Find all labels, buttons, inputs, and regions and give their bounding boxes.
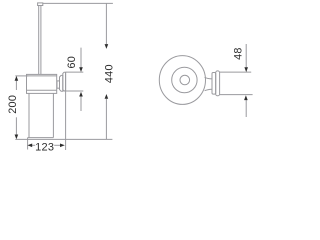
extension line knob bottom (48) (220, 94, 253, 96)
cup right wall (52, 93, 54, 137)
svg-text:200: 200 (7, 95, 19, 114)
dimension 48 lower tail (245, 100, 247, 117)
arrowhead 123 right (60, 144, 65, 148)
knob outer bar (216, 71, 220, 96)
knob neck bottom edge (205, 89, 212, 91)
dimension line 123 right (54, 144, 60, 146)
brush handle cap (38, 3, 43, 6)
cup left wall (28, 93, 30, 137)
svg-text:60: 60 (66, 56, 78, 69)
brush handle rod right edge (40, 6, 42, 75)
dimension line 123 left (32, 144, 35, 146)
arrowhead 440 down (105, 44, 109, 49)
flange middle circle (172, 67, 197, 92)
bracket mid piece (60, 75, 63, 91)
flange inner circle (180, 75, 190, 85)
arrowhead 60 down (79, 67, 83, 72)
extension line knob top (48) (220, 71, 252, 73)
dimension line 200 upper (15, 80, 17, 90)
svg-text:48: 48 (232, 47, 244, 60)
arrowhead 48 up (244, 95, 248, 100)
svg-text:440: 440 (103, 64, 115, 83)
wall plate side (63, 72, 66, 91)
arrowhead 200 up (15, 76, 19, 81)
holder collar top rim line (27, 75, 57, 77)
arrowhead 440 up (105, 94, 109, 99)
dimension line 60 (80, 48, 82, 70)
knob neck top edge (205, 77, 212, 79)
dimension line 440 lower (105, 99, 107, 140)
dimension line 48 upper (245, 44, 247, 67)
extension line bottom (440/200) (15, 138, 112, 140)
arrowhead 60 up (below plate) (79, 92, 83, 97)
extension line plate bottom (60) (64, 90, 84, 92)
brush handle rod left edge (38, 6, 40, 75)
dimension 60 lower tail (80, 96, 82, 111)
holder collar outline (27, 74, 57, 93)
svg-text:123: 123 (35, 142, 54, 154)
knob middle bar (212, 73, 216, 95)
arrowhead 123 left (27, 144, 32, 148)
extension line plate top (60) (66, 71, 84, 73)
dimension line 200 lower (15, 117, 17, 135)
arrowhead 200 down (15, 135, 19, 140)
extension line top (440) (43, 2, 113, 4)
dimension line 440 upper (105, 3, 107, 44)
extension line vertical right (123) (65, 72, 67, 150)
extension line collar top left (200) (15, 75, 28, 77)
flange outer circle (159, 56, 205, 105)
cup bottom (28, 137, 54, 139)
arrowhead 48 down (244, 67, 248, 72)
extension line cup bottom left (123) (27, 138, 29, 150)
holder collar bottom rim line (27, 89, 57, 91)
bracket neck (57, 81, 60, 88)
